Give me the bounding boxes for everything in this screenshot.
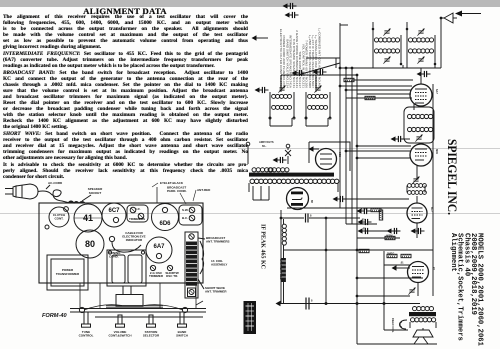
- svg-text:SOCKET: SOCKET: [89, 191, 102, 195]
- wire: osc link: [335, 58, 337, 68]
- output transformer: [409, 307, 436, 329]
- wire: 6A7 cathode lead: [346, 97, 412, 99]
- field coil: [391, 318, 407, 333]
- svg-text:AMP.VOLTS: AMP.VOLTS: [259, 140, 274, 144]
- resistor R5: [401, 254, 411, 257]
- svg-text:6A7: 6A7: [435, 89, 439, 94]
- AC input terminals: [246, 140, 291, 164]
- svg-text:PADD. COND.: PADD. COND.: [167, 189, 187, 193]
- svg-text:IF PEAK 465 KC: IF PEAK 465 KC: [260, 224, 266, 269]
- faint scan fold lines: [238, 148, 500, 149]
- wire loop around eye tube: [309, 142, 350, 171]
- mesh bypass caps: [344, 198, 409, 200]
- svg-text:6A7: 6A7: [153, 244, 165, 250]
- osc trimmers box: [179, 205, 202, 225]
- svg-text:CONT.: CONT.: [55, 217, 64, 221]
- IF coil assembly strip: [185, 232, 198, 298]
- wire: h2: [281, 74, 357, 76]
- wiring color labels: [152, 181, 211, 204]
- bypass capacitor C5: [285, 12, 299, 18]
- tube 6D6: [152, 204, 179, 231]
- AC plug: [5, 184, 38, 199]
- resistor R6: [359, 249, 369, 252]
- svg-text:6C7: 6C7: [430, 207, 434, 212]
- svg-text:CONTROL: CONTROL: [79, 334, 94, 338]
- svg-text:TRIMMER: TRIMMER: [149, 274, 164, 278]
- wire: L1 secondary return: [269, 118, 271, 126]
- svg-text:80: 80: [85, 239, 95, 249]
- tube 6C7: [102, 203, 126, 227]
- svg-text:S.W.: S.W.: [182, 208, 189, 212]
- svg-text:OSC TR.: OSC TR.: [166, 274, 178, 278]
- bypass capacitor C14: [387, 228, 401, 234]
- parts list (rotated): [279, 28, 321, 88]
- tube 6A7: [410, 84, 439, 106]
- wires from IF transformers to bus: [372, 59, 374, 68]
- svg-text:ANT. TRIMMERS: ANT. TRIMMERS: [206, 240, 230, 244]
- speaker socket blob: [68, 201, 85, 203]
- tuning condenser: [107, 250, 146, 286]
- alignment data text column: [3, 14, 248, 180]
- 2nd IF transformer block: [404, 107, 434, 143]
- top-right reference arrow: [455, 11, 481, 17]
- svg-text:TRANSFORMER: TRANSFORMER: [56, 272, 80, 276]
- eye cable: [109, 231, 145, 252]
- svg-text:60~: 60~: [262, 144, 267, 148]
- bypass capacitor C6: [255, 87, 269, 93]
- tube 6D6: [410, 144, 439, 166]
- power transformer: [47, 255, 88, 290]
- tube 41: [74, 204, 102, 232]
- gray scanner band at top: [0, 0, 500, 7]
- bypass capacitor C15: [411, 228, 425, 234]
- osc coil L2: [305, 85, 331, 119]
- wire: vertical v5: [383, 251, 385, 330]
- wire: screen bus vertical: [351, 68, 353, 224]
- resistor R1 250M: [371, 208, 381, 211]
- wire: osc coupling diagonal: [298, 63, 340, 75]
- svg-text:AC-CORD: AC-CORD: [48, 181, 63, 185]
- mesh horizontals: [287, 207, 408, 209]
- svg-text:B.C.: B.C.: [182, 216, 188, 220]
- IF trimmers box: [127, 205, 148, 222]
- antenna coil L1: [269, 85, 295, 119]
- AC cord: [38, 190, 70, 203]
- wire: B+ rail: [432, 84, 434, 296]
- svg-text:TRIMMERS: TRIMMERS: [129, 217, 145, 221]
- bypass capacitor C16: [391, 136, 405, 142]
- bypass capacitor C13: [358, 228, 372, 234]
- svg-text:6G5: 6G5: [338, 152, 342, 157]
- svg-text:.01: .01: [400, 260, 404, 264]
- clutch control: [45, 207, 69, 229]
- svg-text:ANT. TRIMMER: ANT. TRIMMER: [205, 290, 227, 294]
- svg-text:FIELD COIL: FIELD COIL: [391, 318, 395, 333]
- antenna: [440, 13, 457, 68]
- svg-text:FORM-40: FORM-40: [42, 313, 67, 319]
- wire: vertical v2: [345, 68, 347, 224]
- svg-text:INDICATOR: INDICATOR: [126, 238, 143, 242]
- svg-text:6C7: 6C7: [108, 208, 120, 214]
- svg-text:80: 80: [310, 200, 314, 203]
- wire: h3: [306, 57, 340, 59]
- bypass capacitor C12: [358, 219, 372, 225]
- 2nd IF coil vertical: [282, 219, 286, 258]
- tube lead fans: [340, 85, 412, 87]
- bottom ground bus: [276, 298, 421, 310]
- svg-text:8: 8: [310, 213, 312, 217]
- heater leads under power transformer: [252, 186, 254, 200]
- bypass capacitor C1: [292, 70, 306, 76]
- wire: vertical v1: [339, 23, 341, 208]
- svg-text:6D6: 6D6: [159, 221, 171, 227]
- IF transformer L3: [372, 28, 402, 65]
- resistor R4 2MEG: [387, 254, 397, 257]
- IF transformer L4: [406, 28, 436, 65]
- wire: 6A7 screen lead: [352, 79, 413, 81]
- tube 80: [76, 230, 104, 258]
- svg-text:ASSEMBLY: ASSEMBLY: [211, 263, 227, 267]
- filter wiring: [280, 210, 360, 303]
- tube 41: [408, 262, 437, 283]
- resistor R7: [344, 78, 354, 81]
- control shafts: [82, 312, 204, 327]
- resistor R8: [365, 96, 375, 99]
- CHASSIS LAYOUT DIAGRAM: [0, 179, 250, 349]
- bypass capacitor C4: [283, 3, 297, 9]
- resistor R2: [379, 210, 382, 220]
- chassis box: [39, 203, 203, 283]
- labels right of strip: [198, 236, 230, 294]
- ground: antenna section: [252, 35, 269, 40]
- small diode coil block: [407, 176, 426, 194]
- wire: vertical v4 long: [356, 75, 358, 344]
- bypass capacitor C11: [357, 208, 371, 214]
- svg-text:6D6: 6D6: [435, 149, 439, 154]
- svg-text:SPIEGEL INC.: SPIEGEL INC.: [445, 139, 460, 215]
- tube 6C7: [407, 203, 434, 223]
- svg-text:SPEAKER FIELD: SPEAKER FIELD: [279, 259, 283, 280]
- rectifier 80: [287, 188, 315, 210]
- wire: top bus: [340, 67, 441, 69]
- inspection stamp: [244, 301, 257, 334]
- front panel rail: [70, 283, 206, 313]
- resistor R3 400M: [385, 236, 395, 239]
- svg-text:EYELET-BLACK: EYELET-BLACK: [160, 181, 184, 185]
- eye tube 6G5: [309, 146, 343, 169]
- svg-text:8: 8: [311, 299, 313, 303]
- svg-text:ANT-RED: ANT-RED: [197, 188, 211, 192]
- SPEAKER SOCKET label: [82, 187, 103, 201]
- svg-text:SWITCH: SWITCH: [176, 334, 188, 338]
- shaft labels: [79, 330, 188, 338]
- bypass capacitor C3: [417, 71, 431, 77]
- power transformer T: [249, 168, 339, 192]
- svg-text:I.F.: I.F.: [137, 207, 141, 211]
- svg-text:Alignment: Alignment: [449, 233, 457, 272]
- wire: L2 secondary return: [305, 118, 307, 126]
- ground: 41 grid return: [392, 265, 403, 270]
- title: [30, 6, 220, 16]
- speaker: [412, 328, 433, 344]
- svg-text:SELECTOR: SELECTOR: [143, 334, 160, 338]
- osc trimmer small labels: [149, 265, 179, 278]
- AC-CORD label: [46, 181, 63, 189]
- svg-text:COND.: COND.: [109, 254, 119, 258]
- models block (rotated): [449, 233, 484, 347]
- svg-text:CONT.&SWITCH: CONT.&SWITCH: [109, 334, 132, 338]
- tube 6A7: [146, 237, 172, 263]
- wirewound resistor strip: [279, 258, 286, 303]
- bypass capacitor C2: [313, 69, 327, 75]
